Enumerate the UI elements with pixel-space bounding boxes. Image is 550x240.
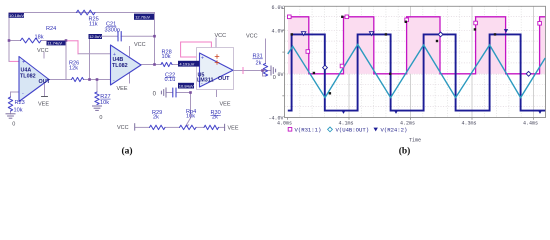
wire U5 vee pin [216, 82, 218, 97]
port VEE bottom rail [224, 124, 226, 131]
svg-text:6.0V: 6.0V [271, 5, 283, 11]
resistor R23 [8, 97, 12, 111]
bias voltage box 11.74uV [47, 41, 66, 46]
ground below R27 [92, 106, 102, 110]
svg-text:VEE: VEE [38, 102, 49, 108]
plot grid minor vertical lines [300, 6, 521, 117]
svg-text:10k: 10k [100, 100, 109, 106]
wire pink vertical [77, 41, 79, 54]
resistor R25 [76, 10, 95, 15]
svg-text:VCC: VCC [117, 125, 129, 131]
wire R24 row [9, 40, 21, 42]
svg-text:OUT: OUT [218, 76, 230, 82]
wire C21 right horizontal [121, 35, 155, 37]
wire bottom rail segments [135, 126, 150, 128]
svg-text:(b): (b) [399, 146, 411, 157]
svg-text:10.84uV: 10.84uV [179, 83, 194, 88]
svg-text:VCC: VCC [134, 42, 146, 48]
svg-text:+: + [201, 55, 204, 61]
op-amp U4B [111, 45, 142, 85]
wire pink node A2 horizontal [66, 40, 79, 42]
U5 balance pins (red) [215, 55, 219, 59]
resistor R28 [161, 62, 172, 66]
plot border [285, 6, 546, 117]
ground left of C22 [161, 88, 166, 98]
svg-text:LM311: LM311 [197, 78, 213, 84]
svg-text:12.0uV: 12.0uV [89, 34, 102, 39]
svg-text:VEE: VEE [220, 102, 231, 108]
svg-text:10k: 10k [14, 108, 23, 114]
svg-text:3300p: 3300p [105, 28, 121, 34]
svg-text:VEE: VEE [117, 86, 128, 92]
magenta square pulse fills [288, 18, 545, 74]
resistor R24 [21, 38, 42, 43]
trace V(R24:2) navy square wave [288, 34, 545, 110]
wire R27 tap [96, 80, 98, 93]
wire U4B plus input [78, 53, 111, 55]
bias voltage box 12.76uV [134, 14, 154, 20]
svg-text:VCC: VCC [215, 33, 227, 39]
axis ticks [282, 9, 533, 120]
plot grid major vertical lines [349, 6, 534, 117]
wire U4A output feedback vertical [65, 41, 67, 80]
wire C21 left horizontal [90, 35, 119, 37]
svg-text:V(R31:1): V(R31:1) [295, 127, 322, 134]
wire U4A vcc pin [43, 53, 45, 59]
resistor R27 [95, 92, 99, 105]
bias voltage box 4.191uV [178, 61, 200, 67]
svg-text:Time: Time [409, 138, 421, 144]
svg-text:V(R24:2): V(R24:2) [381, 127, 408, 134]
op-amp U4A [19, 57, 49, 102]
wire R26 to U4B input [84, 79, 111, 81]
pink port tick at U5 out [242, 68, 244, 74]
wire U4A out to R26 [49, 79, 72, 81]
svg-text:4.0ms: 4.0ms [277, 121, 292, 127]
trace V(R31:1) magenta square wave [288, 17, 545, 74]
potentiometer Rp4 [180, 125, 197, 129]
svg-text:VCC: VCC [246, 33, 258, 39]
wire R23 to minus input [10, 92, 12, 97]
svg-text:11.74uV: 11.74uV [47, 41, 62, 46]
legend [288, 128, 292, 132]
svg-text:10.18uV: 10.18uV [9, 13, 24, 18]
svg-text:2k: 2k [153, 114, 159, 120]
svg-text:18k: 18k [35, 35, 44, 41]
svg-text:0: 0 [12, 121, 15, 127]
wire pot wiper arrow [187, 118, 191, 125]
svg-text:4.0V: 4.0V [271, 28, 283, 34]
svg-text:10k: 10k [186, 113, 195, 119]
wire U5 out [233, 70, 270, 72]
resistor R30 [204, 125, 219, 129]
svg-text:+: + [22, 60, 25, 66]
trace markers [288, 15, 542, 76]
node junction dots [8, 39, 11, 42]
resistor R29 [150, 125, 166, 129]
svg-text:VCC: VCC [37, 48, 49, 54]
pink highlight rectangle near U5 [181, 42, 212, 57]
bias voltage box 10.84uV [178, 83, 194, 89]
svg-text:(a): (a) [121, 146, 132, 157]
port VCC bottom rail [134, 123, 136, 130]
wire U4A vee pin [44, 84, 46, 96]
svg-text:0: 0 [99, 115, 102, 121]
ground right of U5 out [271, 66, 276, 76]
resistor R26 [72, 77, 84, 81]
svg-text:R24: R24 [46, 26, 56, 32]
svg-text:V(U4B:OUT): V(U4B:OUT) [336, 127, 370, 134]
capacitor C21 [117, 32, 119, 42]
wire R28 to U5 [172, 64, 200, 66]
wire U5 vcc pin [215, 38, 217, 55]
svg-text:10k: 10k [162, 54, 171, 60]
bias voltage box 12.0uV [89, 34, 103, 39]
svg-text:0: 0 [273, 75, 276, 81]
svg-text:4.3ms: 4.3ms [461, 121, 476, 127]
svg-text:4.191uV: 4.191uV [179, 61, 194, 66]
wire U4B out to R28 [141, 64, 161, 66]
trace V(U4B:OUT) cyan triangle wave [288, 45, 545, 98]
svg-text:4.4ms: 4.4ms [523, 121, 538, 127]
svg-text:12.76uV: 12.76uV [135, 15, 150, 20]
wire U4B out node vertical [154, 13, 156, 65]
wire U4B vcc pin [129, 47, 131, 57]
pink diagonal into comparator [201, 58, 209, 64]
svg-text:0V: 0V [277, 72, 283, 78]
svg-text:VEE: VEE [228, 125, 239, 131]
wire C22 row [167, 92, 173, 94]
wire C21 left vertical [89, 39, 91, 80]
wire top feedback rail [9, 12, 155, 14]
wire pink U4A plus input stub [10, 60, 19, 62]
bias voltage box 10.18uV [9, 13, 25, 18]
svg-text:R23: R23 [15, 100, 25, 106]
svg-text:12k: 12k [69, 66, 78, 72]
wire R31 bottom [263, 75, 266, 77]
wire pot wiper vertical [190, 93, 192, 119]
ground below R23 [6, 114, 16, 118]
wire R31 vcc [265, 39, 267, 64]
svg-text:2k: 2k [212, 115, 218, 121]
capacitor C22 [172, 88, 174, 97]
wire R23 to ground [10, 111, 12, 114]
plot grid horizontal dotted lines [285, 17, 546, 107]
resistor R31 [263, 64, 267, 77]
svg-text:TL082: TL082 [20, 73, 36, 79]
svg-text:-: - [22, 91, 24, 97]
svg-text:11k: 11k [89, 21, 98, 27]
svg-text:2k: 2k [256, 60, 262, 66]
comparator U5 LM311 [197, 48, 234, 90]
wire U4B vee pin [129, 73, 131, 83]
svg-text:R31: R31 [253, 54, 263, 60]
svg-text:OUT: OUT [39, 79, 51, 85]
svg-text:0.1u: 0.1u [165, 77, 176, 83]
wire node A vertical [8, 13, 10, 62]
svg-text:TL082: TL082 [112, 63, 128, 69]
plot grid 0V line [285, 73, 546, 75]
svg-text:C21: C21 [106, 22, 116, 28]
black data dots [291, 16, 497, 95]
